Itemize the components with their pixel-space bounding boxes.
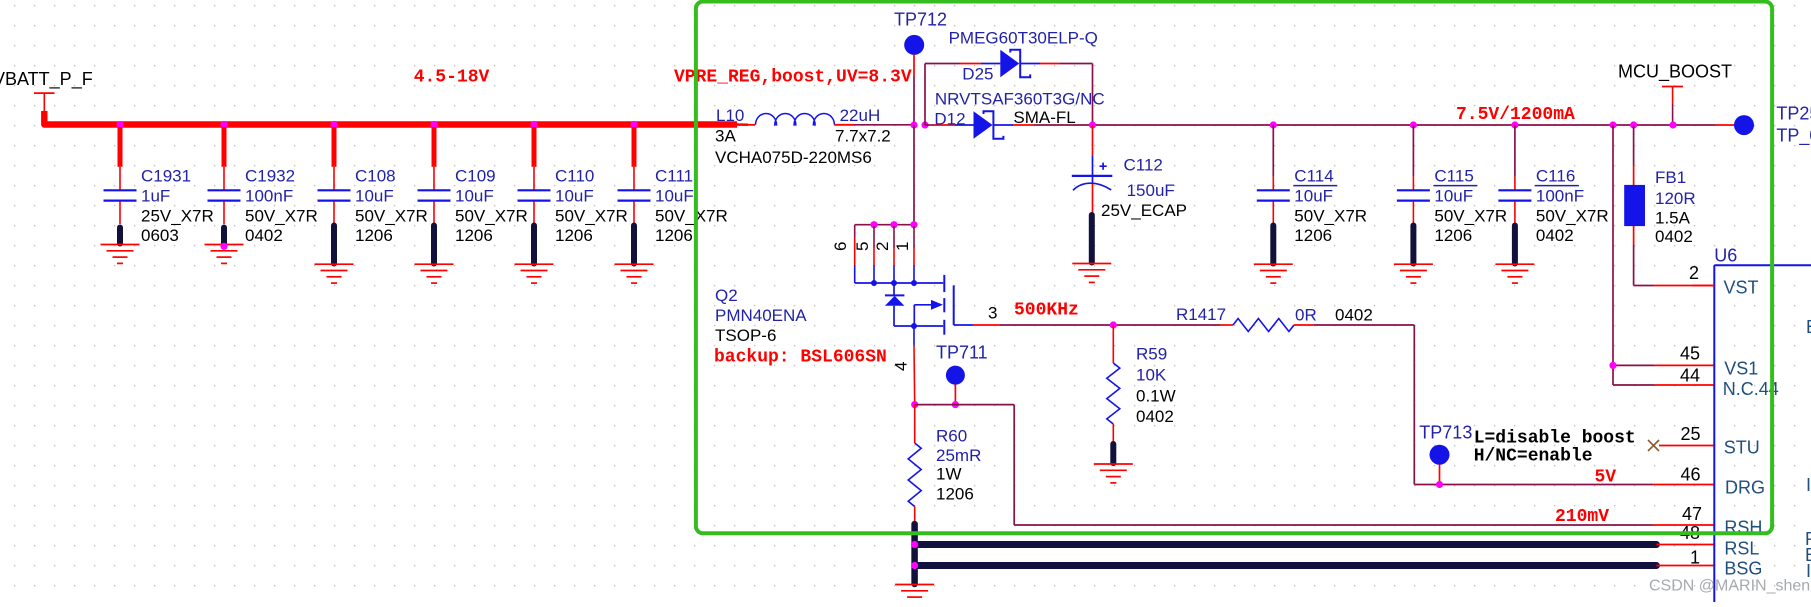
svg-text:R60: R60 [936, 427, 967, 446]
svg-text:5V: 5V [1595, 468, 1617, 488]
svg-text:10uF: 10uF [355, 187, 394, 206]
wire to C115 [1412, 125, 1414, 190]
svg-text:C114: C114 [1294, 167, 1333, 186]
junction R59 [1110, 321, 1117, 328]
wire stub to C111 [632, 127, 637, 190]
svg-text:Q2: Q2 [715, 286, 738, 305]
capacitor C114 [1254, 190, 1293, 283]
resistor R59 [1094, 325, 1133, 483]
svg-text:0402: 0402 [245, 226, 283, 245]
label C109 [455, 167, 528, 246]
svg-text:backup: BSL606SN: backup: BSL606SN [714, 348, 887, 368]
wire TP712 to net [913, 55, 915, 126]
capacitor C115 [1394, 190, 1433, 283]
wire TP713 [1439, 465, 1441, 485]
svg-text:D25: D25 [962, 65, 993, 84]
svg-text:7.5V/1200mA: 7.5V/1200mA [1456, 105, 1575, 125]
wire TP711 [954, 385, 956, 405]
junction TP712/Q2 drain [910, 121, 917, 128]
wire gate net (500KHz) [973, 324, 1220, 326]
bus BSG [917, 562, 1656, 569]
clipped labels at right edge [1805, 317, 1811, 581]
svg-text:5: 5 [853, 242, 872, 251]
svg-text:STU: STU [1724, 438, 1760, 458]
svg-text:0603: 0603 [141, 226, 179, 245]
junction C112 [1089, 121, 1096, 128]
svg-text:47: 47 [1682, 504, 1702, 524]
svg-text:VCHA075D-220MS6: VCHA075D-220MS6 [715, 148, 872, 167]
junction at C1932 ground [220, 243, 227, 250]
label C1931 [141, 167, 214, 246]
svg-text:10uF: 10uF [655, 187, 694, 206]
svg-text:C111: C111 [655, 167, 693, 186]
wire Q2 pin5 [873, 226, 875, 283]
resistor R1417 [1220, 319, 1314, 332]
junction on VBATT bus at C108 [330, 121, 337, 128]
wire to C114 [1272, 125, 1274, 190]
svg-text:0402: 0402 [1136, 407, 1174, 426]
capacitor C1931 [101, 190, 140, 263]
svg-text:B: B [1806, 317, 1811, 337]
svg-text:10uF: 10uF [1294, 187, 1333, 206]
wire stub to C109 [432, 127, 437, 190]
svg-text:25mR: 25mR [936, 446, 981, 465]
svg-text:25: 25 [1680, 424, 1700, 444]
svg-text:C115: C115 [1434, 167, 1473, 186]
svg-text:1: 1 [893, 242, 912, 251]
label C114 [1293, 167, 1367, 246]
wire RSH sense [915, 405, 1714, 525]
svg-text:1206: 1206 [1294, 226, 1332, 245]
wire VPRE_REG net [854, 124, 914, 126]
wire Q2 source to R60 [913, 326, 916, 405]
svg-text:10uF: 10uF [455, 187, 494, 206]
inductor L10 [748, 113, 854, 124]
label R60 [936, 427, 981, 504]
svg-text:1.5A: 1.5A [1655, 209, 1691, 228]
svg-text:1206: 1206 [1434, 226, 1472, 245]
svg-text:C108: C108 [355, 167, 396, 186]
svg-text:R59: R59 [1136, 345, 1167, 364]
junction C115 [1410, 121, 1417, 128]
svg-text:50V_X7R: 50V_X7R [1294, 207, 1367, 226]
junction on VBATT bus at C109 [430, 121, 437, 128]
svg-text:RSL: RSL [1724, 539, 1759, 559]
bus RSL [917, 541, 1656, 548]
wire D25 branch left/top [925, 64, 981, 126]
wire STU pin stub [1659, 445, 1714, 447]
junction C114 [1270, 121, 1277, 128]
svg-text:50V_X7R: 50V_X7R [1536, 207, 1609, 226]
svg-text:10uF: 10uF [1434, 187, 1473, 206]
svg-text:C116: C116 [1536, 167, 1575, 186]
svg-text:C1931: C1931 [141, 167, 191, 186]
junction pin5 [870, 221, 877, 228]
wire after D12 [1013, 124, 1092, 126]
wire Q2 pin2 [893, 226, 895, 283]
wire Q2 drain [855, 125, 914, 225]
svg-text:45: 45 [1680, 344, 1700, 364]
svg-text:PMN40ENA: PMN40ENA [715, 306, 807, 325]
junction pin2 [890, 221, 897, 228]
svg-text:3A: 3A [715, 127, 736, 146]
svg-text:100nF: 100nF [245, 187, 293, 206]
resistor R60 (shunt) [908, 405, 921, 523]
svg-text:0402: 0402 [1536, 226, 1574, 245]
svg-text:0402: 0402 [1655, 227, 1693, 246]
no-connect X on STU [1648, 440, 1659, 451]
svg-text:R1417: R1417 [1176, 305, 1226, 324]
svg-text:150uF: 150uF [1127, 181, 1175, 200]
junction R60 top [911, 401, 918, 408]
wire Q2 pin6 [854, 225, 856, 283]
wire 7.5V net [1093, 124, 1716, 126]
capacitor C109 [415, 190, 454, 283]
capacitor C111 [615, 190, 654, 283]
svg-text:100nF: 100nF [1536, 187, 1584, 206]
test point TP712 [904, 35, 924, 55]
junction TP713 [1436, 481, 1443, 488]
svg-text:CSDN @MARIN_shen: CSDN @MARIN_shen [1649, 578, 1810, 595]
svg-text:44: 44 [1680, 366, 1700, 386]
pin 2 stub [1693, 285, 1715, 287]
svg-text:7.7x7.2: 7.7x7.2 [835, 127, 891, 146]
svg-text:U6: U6 [1714, 246, 1737, 266]
capacitor C1932 [205, 190, 244, 263]
svg-text:50V_X7R: 50V_X7R [1434, 207, 1507, 226]
svg-text:TP712: TP712 [894, 10, 947, 30]
svg-text:10uF: 10uF [555, 187, 594, 206]
svg-text:TP_05: TP_05 [1776, 126, 1811, 147]
wire stub to C108 [332, 127, 337, 190]
junction TP711 [952, 401, 959, 408]
label R59 [1136, 345, 1176, 427]
label C108 [355, 167, 428, 246]
label R1417 [1176, 305, 1373, 325]
junction FB1 [1630, 121, 1637, 128]
svg-text:VBATT_P_F: VBATT_P_F [0, 69, 93, 90]
svg-text:VS1: VS1 [1724, 359, 1758, 379]
svg-text:10K: 10K [1136, 366, 1167, 385]
test point TP711 [946, 366, 965, 385]
wire RSL pin stub [1656, 544, 1714, 546]
wire stub to C1931 [118, 127, 123, 190]
svg-text:1206: 1206 [655, 226, 693, 245]
label C111 [655, 167, 728, 246]
op-amp U6 IC body [1714, 265, 1811, 602]
label C115 [1433, 167, 1507, 246]
svg-text:50V_X7R: 50V_X7R [455, 207, 528, 226]
svg-text:SMA-FL: SMA-FL [1013, 108, 1075, 127]
wire D25 branch right [1040, 64, 1093, 126]
svg-text:25V_ECAP: 25V_ECAP [1101, 201, 1187, 220]
svg-text:C110: C110 [555, 167, 594, 186]
wire thick red VBATT bus [44, 111, 748, 125]
svg-text:L10: L10 [716, 106, 744, 125]
svg-text:50V_X7R: 50V_X7R [655, 207, 728, 226]
wire stub to C110 [532, 127, 537, 190]
junction pin1 [910, 221, 917, 228]
svg-text:500KHz: 500KHz [1014, 301, 1079, 321]
svg-text:0402: 0402 [1335, 306, 1373, 325]
svg-text:VPRE_REG,boost,UV=8.3V: VPRE_REG,boost,UV=8.3V [674, 68, 912, 88]
junction BSG at shunt [911, 562, 918, 569]
label C116 [1535, 167, 1609, 246]
capacitor C116 [1495, 190, 1534, 283]
svg-text:C109: C109 [455, 167, 496, 186]
label Q2 [715, 286, 807, 345]
label C112 [1101, 156, 1187, 221]
label C110 [555, 167, 628, 246]
svg-text:3: 3 [988, 304, 997, 323]
capacitor C108 [315, 190, 354, 283]
svg-text:1206: 1206 [455, 226, 493, 245]
svg-text:50V_X7R: 50V_X7R [555, 207, 628, 226]
svg-text:TSOP-6: TSOP-6 [715, 326, 776, 345]
wire stub to C1932 [222, 127, 227, 190]
junction on VBATT bus at C1932 [220, 121, 227, 128]
svg-text:DRG: DRG [1725, 478, 1765, 498]
svg-text:1W: 1W [936, 465, 962, 484]
svg-text:2: 2 [1689, 263, 1699, 283]
svg-text:C112: C112 [1124, 156, 1163, 175]
svg-text:H/NC=enable: H/NC=enable [1474, 447, 1593, 467]
svg-text:TP25: TP25 [1776, 104, 1811, 124]
svg-text:NRVTSAF360T3G/NC: NRVTSAF360T3G/NC [935, 90, 1105, 109]
svg-text:PMEG60T30ELP-Q: PMEG60T30ELP-Q [949, 29, 1098, 48]
svg-text:6: 6 [831, 242, 850, 251]
svg-text:MCU_BOOST: MCU_BOOST [1618, 62, 1732, 83]
wire VS1/NC44 net [1613, 125, 1714, 385]
test point TP25 [1734, 115, 1754, 135]
junction C116 [1511, 121, 1518, 128]
power symbol MCU_BOOST [1662, 87, 1683, 126]
green highlight box [696, 2, 1772, 534]
svg-text:D12: D12 [934, 110, 965, 129]
svg-text:TP713: TP713 [1419, 423, 1472, 443]
capacitor C112 (electrolytic) [1072, 125, 1113, 282]
svg-text:120R: 120R [1655, 189, 1696, 208]
junction on VBATT bus at C1931 [116, 121, 123, 128]
svg-text:0.1W: 0.1W [1136, 387, 1176, 406]
transistor Q2 (n-mosfet with body diode) [855, 275, 973, 335]
svg-text:BSG: BSG [1724, 559, 1762, 579]
capacitor C110 [515, 190, 554, 283]
svg-text:VST: VST [1724, 278, 1759, 298]
junction on VBATT bus at C110 [530, 121, 537, 128]
svg-text:1uF: 1uF [141, 187, 170, 206]
wire R1417 to DRG [1314, 325, 1714, 485]
wire BSG pin stub [1656, 565, 1714, 567]
svg-text:2: 2 [873, 242, 892, 251]
svg-text:I: I [1806, 475, 1811, 495]
power symbol VBATT_P_F [34, 93, 55, 112]
svg-text:50V_X7R: 50V_X7R [245, 207, 318, 226]
label FB1 [1655, 168, 1696, 246]
svg-text:L=disable boost: L=disable boost [1474, 429, 1636, 449]
junction pin45 [1609, 362, 1616, 369]
svg-text:4.5-18V: 4.5-18V [414, 68, 490, 88]
junction RSL at shunt [911, 541, 918, 548]
wire to D12 [925, 124, 955, 126]
svg-text:4: 4 [892, 362, 911, 371]
junction MCU_BOOST tap [1669, 121, 1676, 128]
svg-text:1206: 1206 [936, 485, 974, 504]
label C1932 [245, 167, 318, 246]
svg-text:46: 46 [1680, 465, 1700, 485]
svg-text:TP711: TP711 [936, 343, 988, 363]
svg-text:25V_X7R: 25V_X7R [141, 207, 214, 226]
svg-text:22uH: 22uH [840, 106, 881, 125]
ground below R60 [895, 585, 934, 604]
junction on VBATT bus at C111 [630, 121, 637, 128]
svg-text:1206: 1206 [555, 226, 593, 245]
svg-text:1206: 1206 [355, 226, 393, 245]
svg-text:C1932: C1932 [245, 167, 295, 186]
svg-text:0R: 0R [1295, 306, 1317, 325]
junction VS1 net [1609, 121, 1616, 128]
svg-text:1: 1 [1690, 548, 1700, 568]
diode D12 (schottky) [955, 111, 1013, 139]
diode D25 (schottky) [981, 50, 1040, 78]
svg-text:210mV: 210mV [1555, 507, 1609, 527]
wire to TP25 [1715, 124, 1735, 126]
svg-text:50V_X7R: 50V_X7R [355, 207, 428, 226]
test point TP713 [1430, 445, 1450, 465]
label L10 [715, 106, 891, 167]
wide wire R60 to ground [911, 524, 918, 584]
wire to C116 [1514, 125, 1516, 190]
junction D25 branch [921, 121, 928, 128]
wire Q2 pin1 [913, 226, 915, 283]
ferrite bead FB1 [1624, 125, 1714, 286]
svg-text:FB1: FB1 [1655, 168, 1686, 187]
